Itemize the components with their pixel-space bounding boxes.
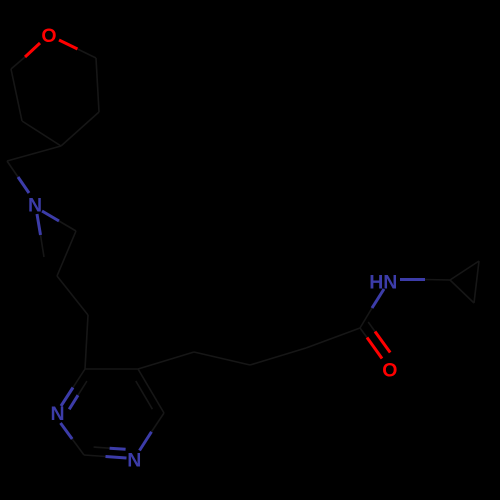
wire C2r-C3r bbox=[96, 58, 99, 112]
wire Cco=O2 line2 (carbon half) bbox=[368, 322, 375, 332]
wire Cco-NH (carbon half) bbox=[360, 308, 372, 328]
wire Cb-Cc bbox=[57, 276, 88, 315]
wire CH2-N amine (carbon half) bbox=[7, 161, 18, 177]
wire E3-Cco carbonyl bbox=[306, 328, 360, 348]
wire C2=N3 main (blue half) bbox=[106, 457, 127, 459]
wire C3r-C4r bbox=[61, 112, 99, 146]
svg-text:O: O bbox=[41, 25, 56, 47]
wire N-Ca chain (carbon half) bbox=[59, 221, 76, 231]
wire N3-C4 (carbon half) bbox=[152, 413, 165, 432]
wire C2=N3 inner (carbon half) bbox=[94, 447, 110, 448]
wire N1-C2 (blue half) bbox=[61, 423, 73, 439]
wire cyclopropyl C1-C2cp bbox=[450, 261, 479, 280]
wire N-Ca chain (blue half) bbox=[42, 211, 59, 221]
wire Cco=O2 line1 (red half) bbox=[367, 338, 382, 359]
wire N1=C6 inner (blue half) bbox=[69, 395, 78, 409]
wire CH2-N amine (blue half) bbox=[18, 177, 29, 193]
wire C4r-C5r bbox=[22, 121, 61, 146]
wire Cco=O2 line2 (red half) bbox=[375, 332, 390, 353]
wire C2=N3 inner (blue half) bbox=[110, 448, 126, 449]
wire O1-C6r (tetrahydropyran ring bond, red half) bbox=[25, 43, 40, 57]
wire NH-C1cp (carbon half) bbox=[425, 279, 450, 282]
wire C2=N3 main (carbon half) bbox=[84, 455, 106, 457]
wire E2-E3 chain bbox=[250, 348, 306, 365]
wire O1-C2r (red half) bbox=[59, 40, 78, 49]
svg-text:N: N bbox=[28, 195, 42, 217]
svg-text:O: O bbox=[382, 360, 397, 382]
wire C4r-CH2 linker bbox=[7, 146, 61, 161]
wire Cco-NH (blue half) bbox=[372, 289, 384, 308]
wire N1=C6 main (carbon half) bbox=[73, 369, 85, 388]
wire O1-C6r (carbon half) bbox=[11, 57, 25, 69]
wire C5r-C6r bbox=[11, 69, 22, 121]
svg-text:N: N bbox=[127, 450, 141, 472]
wire NH-C1cp (blue half) bbox=[400, 278, 425, 281]
wire Cc-C6 pyrimidine attach bbox=[85, 315, 88, 369]
wire N3-C4 (blue half) bbox=[140, 432, 152, 451]
wire cyclopropyl C2cp-C3cp bbox=[474, 261, 479, 303]
wire O1-C2r (carbon half) bbox=[78, 49, 97, 58]
wire Cco=O2 line1 (carbon half) bbox=[360, 328, 367, 338]
wire N-CH3 methyl (blue half) bbox=[37, 214, 41, 235]
wire cyclopropyl C1-C3cp bbox=[450, 280, 474, 303]
wire N1=C6 main (blue half) bbox=[61, 388, 73, 407]
wire Ca-Cb bbox=[57, 231, 76, 276]
wire N1-C2 (carbon half) bbox=[72, 439, 84, 455]
wire C4=C5 main bbox=[138, 369, 164, 413]
svg-text:N: N bbox=[51, 403, 65, 425]
svg-text:HN: HN bbox=[369, 271, 397, 293]
wire N-CH3 methyl (carbon half) bbox=[41, 235, 45, 257]
wire C4=C5 inner bbox=[136, 381, 153, 409]
wire N1=C6 inner (carbon half) bbox=[78, 381, 87, 395]
wire E1-E2 chain bbox=[194, 352, 250, 365]
wire C5-E1 chain bbox=[138, 352, 194, 369]
wire C6-C5 pyrimidine ring bbox=[85, 368, 138, 370]
